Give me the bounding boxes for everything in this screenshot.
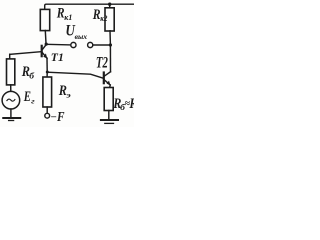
svg-text:T2: T2 [96, 55, 108, 72]
svg-text:F: F [56, 110, 65, 125]
svg-text:T1: T1 [51, 50, 64, 64]
svg-text:–: – [50, 112, 56, 123]
svg-text:R: R [129, 96, 134, 112]
svg-text:к2: к2 [100, 14, 107, 23]
svg-text:E: E [23, 89, 31, 105]
svg-text:вых: вых [75, 32, 88, 41]
svg-text:э: э [65, 91, 71, 100]
svg-text:к1: к1 [64, 13, 72, 22]
svg-text:б: б [29, 71, 35, 81]
svg-text:г: г [31, 97, 35, 105]
